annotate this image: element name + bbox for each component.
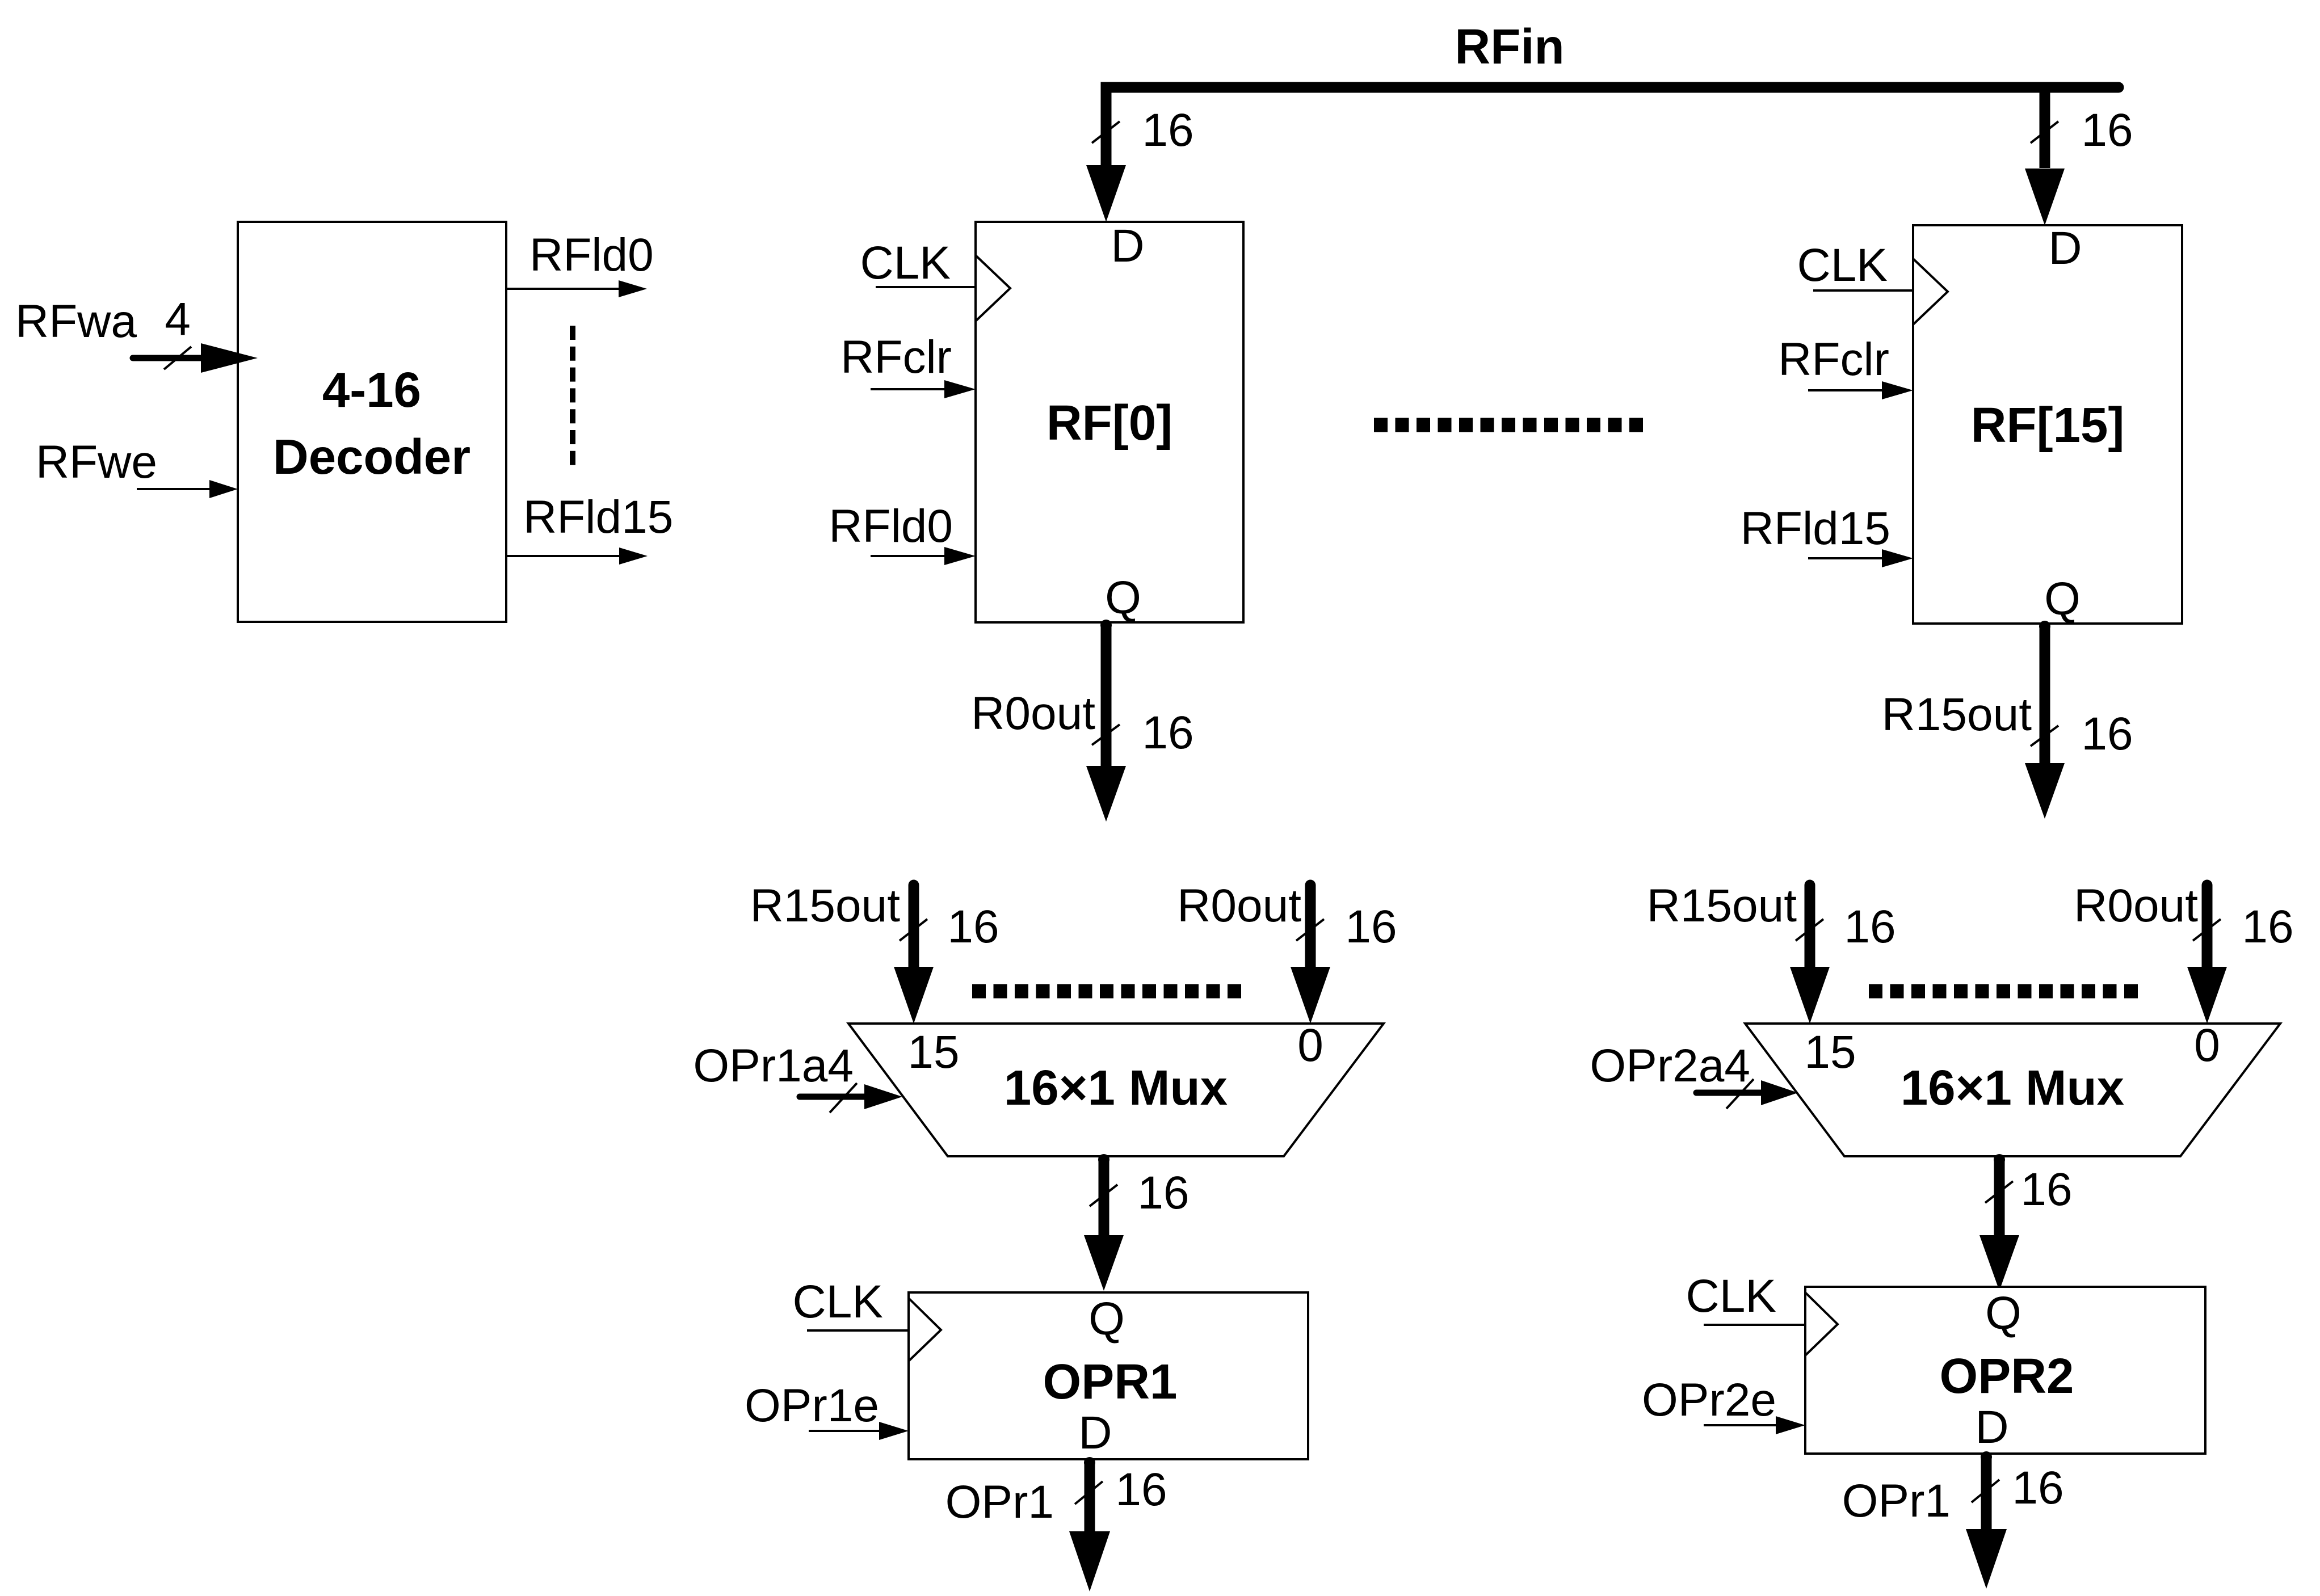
svg-text:OPr1: OPr1 [1842, 1475, 1951, 1527]
bus-width label 16 on R15out [2081, 708, 2133, 760]
register OPR1 box [909, 1292, 1308, 1459]
wire OPr1 output bus from OPR1 D [1069, 1457, 1110, 1591]
pin D of OPR2 [1975, 1401, 2008, 1453]
svg-text:OPR1: OPR1 [1043, 1354, 1178, 1409]
ellipsis dashed line between mux U2 inputs [972, 984, 1241, 999]
wire OPr2e into OPR2 [1704, 1416, 1805, 1434]
net label RFwa 4 [15, 293, 191, 347]
clock triangle of OPR2 [1805, 1292, 1838, 1355]
wire RFld15 decoder output [506, 548, 648, 565]
clock triangle of RF[0] [976, 255, 1010, 321]
svg-text:RF[0]: RF[0] [1046, 395, 1172, 450]
svg-text:16×1 Mux: 16×1 Mux [1901, 1060, 2124, 1115]
svg-text:16×1 Mux: 16×1 Mux [1004, 1060, 1228, 1115]
net label RFld0 of RF[0] [829, 500, 953, 552]
wire R0out bus into mux U3 input 0 [2187, 885, 2227, 1024]
net label RFld15 decoder output [523, 491, 673, 543]
net label OPr1 output [945, 1476, 1054, 1528]
ellipsis dashed line between RF[0] and RF[15] [1374, 418, 1643, 432]
mux U3 16x1 Mux trapezoid [1745, 1024, 2280, 1156]
net label RFld0 decoder output [529, 229, 654, 281]
svg-text:Q: Q [1088, 1293, 1125, 1345]
bus-width label 16 on left RFin drop [1142, 104, 1193, 156]
register OPR2 box [1805, 1287, 2205, 1454]
pin Q of RF[0] [1105, 572, 1141, 624]
arrowhead RFin into RF[15] D [2025, 169, 2065, 225]
svg-text:16: 16 [1115, 1464, 1167, 1515]
bus-width label 16 on OPR2 output [2012, 1462, 2063, 1514]
net label R15out [1882, 689, 2032, 740]
wire RFclr into RF[0] [871, 380, 976, 398]
svg-text:D: D [2048, 222, 2082, 274]
svg-text:R0out: R0out [971, 688, 1095, 739]
svg-text:4: 4 [165, 293, 191, 345]
bus-width label 16 on mux U3 output [2020, 1164, 2072, 1215]
net label R0out at mux U2 [1177, 880, 1301, 932]
svg-text:Decoder: Decoder [273, 429, 470, 485]
wire mux U2 output bus [1084, 1154, 1124, 1291]
svg-text:Q: Q [2044, 573, 2081, 625]
wire CLK into RF[0] [876, 286, 976, 288]
net label CLK of OPR1 [792, 1276, 883, 1328]
ellipsis dotted line decoder outputs [570, 326, 575, 465]
wire RFin bus right drop to RF[15] D [2040, 92, 2050, 168]
svg-text:Q: Q [1105, 572, 1141, 624]
bus-width label 16 at mux U3 input 15 [1844, 901, 1895, 953]
svg-text:R0out: R0out [1177, 880, 1301, 932]
svg-text:16: 16 [2081, 708, 2133, 760]
svg-text:RFclr: RFclr [840, 331, 952, 383]
svg-text:RFld0: RFld0 [829, 500, 953, 552]
clock triangle of RF[15] [1913, 259, 1948, 325]
svg-text:15: 15 [1804, 1026, 1856, 1078]
arrowhead RFin into RF[0] D [1086, 165, 1126, 222]
svg-text:R15out: R15out [750, 880, 901, 932]
decoder U1 4-16 Decoder box [238, 222, 506, 622]
svg-text:CLK: CLK [1797, 239, 1888, 291]
pin 15 of mux U3 [1804, 1026, 1856, 1078]
svg-text:D: D [1111, 220, 1144, 272]
wire OPr1 output bus from OPR2 D [1966, 1451, 2007, 1589]
net label OPr2a4 select [1590, 1040, 1750, 1092]
svg-text:RF[15]: RF[15] [1971, 398, 2125, 453]
net label RFwe [36, 436, 157, 488]
pin D of RF[15] [2048, 222, 2082, 274]
svg-text:CLK: CLK [1686, 1270, 1776, 1322]
wire RFin bus horizontal with left drop to RF[0] D [1106, 87, 2119, 168]
bus-width label 16 on OPr1 output [1115, 1464, 1167, 1515]
wire OPr2a4 into mux U3 select [1696, 1079, 1798, 1109]
svg-text:16: 16 [1137, 1167, 1189, 1219]
svg-text:0: 0 [2194, 1020, 2220, 1071]
svg-text:RFld15: RFld15 [523, 491, 673, 543]
svg-text:16: 16 [1844, 901, 1895, 953]
svg-text:RFin: RFin [1455, 19, 1564, 74]
svg-text:RFclr: RFclr [1778, 334, 1889, 385]
svg-text:OPr1a4: OPr1a4 [693, 1040, 854, 1092]
bus-width slash on right RFin drop [2031, 121, 2058, 143]
pin 0 of mux U3 [2194, 1020, 2220, 1071]
net label RFld15 of RF[15] [1741, 503, 1890, 554]
net label CLK of OPR2 [1686, 1270, 1776, 1322]
svg-text:OPr2e: OPr2e [1642, 1374, 1776, 1426]
RFin net label [1455, 19, 1564, 74]
svg-text:16: 16 [2020, 1164, 2072, 1215]
net label R0out [971, 688, 1095, 739]
net label OPr1 output of OPR2 [1842, 1475, 1951, 1527]
net label OPr2e [1642, 1374, 1776, 1426]
pin D of RF[0] [1111, 220, 1144, 272]
wire CLK into OPR1 [807, 1329, 909, 1332]
svg-text:D: D [1078, 1407, 1112, 1459]
pin Q of OPR2 [1985, 1287, 2021, 1339]
svg-text:RFld15: RFld15 [1741, 503, 1890, 554]
bus-width label 16 at mux U2 input 0 [1345, 901, 1397, 953]
svg-text:RFld0: RFld0 [529, 229, 654, 281]
net label R0out at mux U3 [2074, 880, 2198, 932]
wire OPr1a4 into mux U2 select [800, 1083, 902, 1113]
wire RFld15 into RF[15] [1808, 549, 1913, 567]
net label CLK of RF[0] [860, 237, 951, 289]
bus-width label 16 at mux U3 input 0 [2242, 901, 2293, 953]
svg-text:4-16: 4-16 [322, 363, 421, 418]
register RF[15] box [1913, 225, 2182, 624]
clock triangle of OPR1 [909, 1298, 941, 1361]
svg-text:OPR2: OPR2 [1940, 1349, 2074, 1404]
net label R15out at mux U3 [1647, 880, 1797, 932]
svg-text:R15out: R15out [1882, 689, 2032, 740]
svg-text:CLK: CLK [792, 1276, 883, 1328]
net label OPr1e [745, 1380, 879, 1431]
svg-text:CLK: CLK [860, 237, 951, 289]
svg-text:OPr1e: OPr1e [745, 1380, 879, 1431]
wire RFld0 into RF[0] [871, 547, 976, 565]
svg-text:Q: Q [1985, 1287, 2021, 1339]
svg-text:16: 16 [1142, 104, 1193, 156]
wire RFclr into RF[15] [1808, 381, 1913, 399]
net label RFclr of RF[15] [1778, 334, 1889, 385]
svg-text:16: 16 [2012, 1462, 2063, 1514]
pin 0 of mux U2 [1297, 1020, 1323, 1071]
net label R15out at mux U2 [750, 880, 901, 932]
register RF[0] box [976, 222, 1243, 622]
svg-text:16: 16 [1142, 707, 1193, 759]
pin 15 of mux U2 [907, 1026, 959, 1078]
net label CLK of RF[15] [1797, 239, 1888, 291]
wire R15out bus into mux U2 input 15 [894, 885, 934, 1024]
ellipsis dashed line between mux U3 inputs [1869, 984, 2138, 999]
wire R0out bus into mux U2 input 0 [1291, 885, 1330, 1024]
wire R15out bus from RF[15] Q [2025, 621, 2065, 819]
pin Q of OPR1 [1088, 1293, 1125, 1345]
net label OPr1a4 select [693, 1040, 854, 1092]
svg-text:RFwa: RFwa [15, 296, 137, 347]
bus-width label 16 on right RFin drop [2081, 104, 2133, 156]
net label RFclr of RF[0] [840, 331, 952, 383]
svg-text:R15out: R15out [1647, 880, 1797, 932]
wire RFwa into decoder [133, 343, 258, 373]
svg-text:0: 0 [1297, 1020, 1323, 1071]
svg-text:16: 16 [2242, 901, 2293, 953]
pin Q of RF[15] [2044, 573, 2081, 625]
svg-text:16: 16 [947, 901, 999, 953]
svg-text:16: 16 [2081, 104, 2133, 156]
svg-text:D: D [1975, 1401, 2008, 1453]
svg-text:16: 16 [1345, 901, 1397, 953]
pin D of OPR1 [1078, 1407, 1112, 1459]
wire RFwe into decoder [137, 480, 238, 498]
wire OPr1e into OPR1 [809, 1422, 909, 1440]
wire mux U3 output bus [1979, 1154, 2019, 1291]
wire RFld0 decoder output [506, 280, 647, 297]
mux U2 16x1 Mux trapezoid [848, 1024, 1384, 1156]
bus-width label 16 on R0out [1142, 707, 1193, 759]
bus-width label 16 at mux U2 input 15 [947, 901, 999, 953]
bus-width slash on left RFin drop [1092, 121, 1120, 143]
bus-width label 16 on mux U2 output [1137, 1167, 1189, 1219]
svg-text:OPr2a4: OPr2a4 [1590, 1040, 1750, 1092]
svg-text:15: 15 [907, 1026, 959, 1078]
svg-text:RFwe: RFwe [36, 436, 157, 488]
wire R15out bus into mux U3 input 15 [1790, 885, 1830, 1024]
wire CLK into RF[15] [1813, 289, 1913, 292]
svg-text:OPr1: OPr1 [945, 1476, 1054, 1528]
wire CLK into OPR2 [1704, 1324, 1805, 1326]
wire R0out bus from RF[0] Q [1086, 620, 1126, 822]
svg-text:R0out: R0out [2074, 880, 2198, 932]
